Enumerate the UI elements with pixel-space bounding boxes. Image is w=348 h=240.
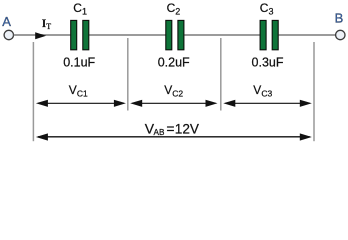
VAB dimension arrow xyxy=(36,133,312,140)
capacitor C1 plate right xyxy=(83,20,89,49)
dimension tick at node A xyxy=(32,42,34,141)
svg-text:0.2uF: 0.2uF xyxy=(158,55,190,69)
VC2 dimension arrow xyxy=(130,100,217,107)
VC3 dimension arrow xyxy=(223,100,311,107)
dimension tick between C2 and C3 xyxy=(220,38,222,111)
wire C1 to C2 xyxy=(89,34,166,36)
current arrow IT xyxy=(35,32,46,39)
svg-text:VAB=12V: VAB=12V xyxy=(145,120,199,137)
dimension tick between C1 and C2 xyxy=(127,38,129,111)
svg-text:C1: C1 xyxy=(73,1,87,17)
svg-text:C3: C3 xyxy=(260,1,274,17)
capacitor C2 plate right xyxy=(178,20,184,49)
capacitor C3 plate left xyxy=(260,20,266,49)
VC1 dimension arrow xyxy=(36,100,126,107)
svg-text:0.3uF: 0.3uF xyxy=(252,55,284,69)
svg-text:VC3: VC3 xyxy=(253,83,272,99)
capacitor C1 plate left xyxy=(71,20,77,49)
node A terminal xyxy=(4,30,13,39)
capacitor C3 plate right xyxy=(272,20,278,49)
wire C3 to B xyxy=(279,34,336,36)
wire A to C1 xyxy=(14,34,71,36)
capacitor C2 plate left xyxy=(166,20,172,49)
svg-text:VC1: VC1 xyxy=(69,83,88,99)
svg-text:C2: C2 xyxy=(167,1,181,17)
wire C2 to C3 xyxy=(184,34,259,36)
svg-text:0.1uF: 0.1uF xyxy=(63,55,95,69)
svg-text:VC2: VC2 xyxy=(164,83,183,99)
svg-text:B: B xyxy=(335,11,344,26)
svg-text:A: A xyxy=(2,14,11,29)
svg-text:IT: IT xyxy=(42,18,51,31)
node B terminal xyxy=(336,30,345,39)
dimension tick at node B xyxy=(313,42,315,141)
